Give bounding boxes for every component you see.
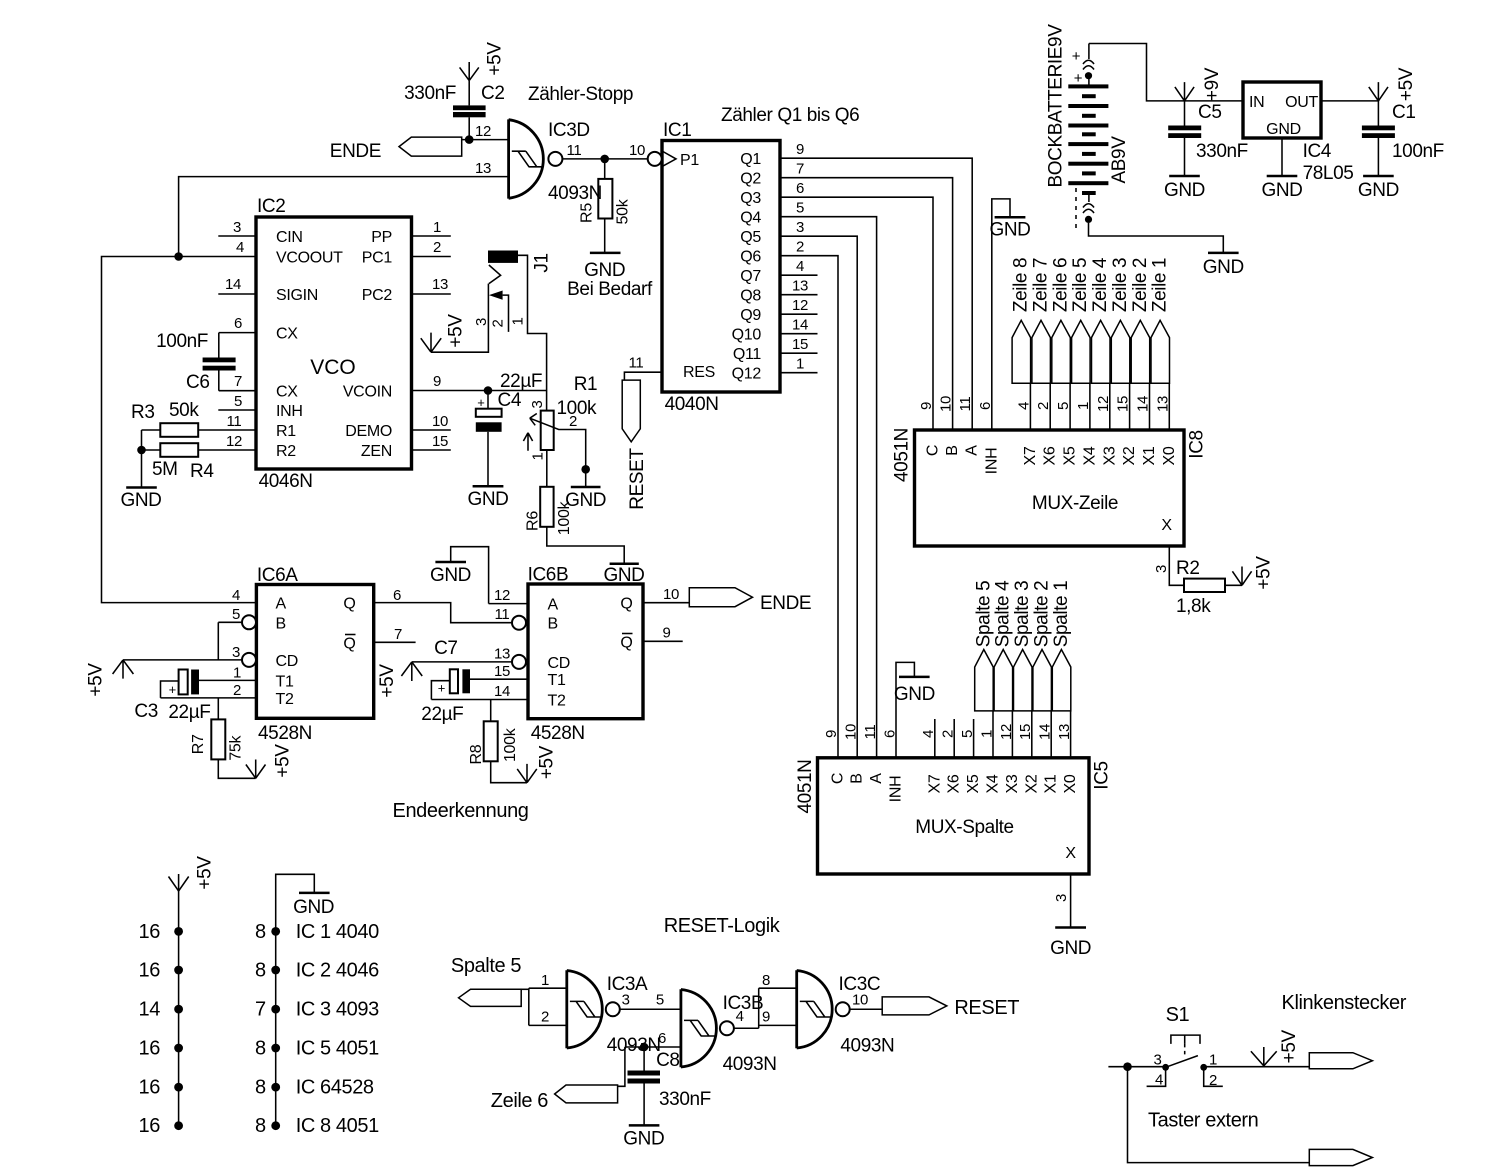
svg-text:+5V: +5V (1279, 1030, 1300, 1064)
svg-text:X1: X1 (1043, 774, 1060, 793)
svg-text:C1: C1 (1392, 102, 1416, 123)
svg-text:CD: CD (548, 655, 571, 672)
svg-text:Spalte 5: Spalte 5 (451, 955, 521, 977)
svg-text:T2: T2 (276, 691, 294, 708)
svg-text:100nF: 100nF (1392, 141, 1444, 162)
svg-text:12: 12 (998, 724, 1015, 740)
svg-text:6: 6 (658, 1030, 666, 1047)
svg-text:12: 12 (494, 587, 510, 604)
svg-text:X1: X1 (1141, 446, 1158, 465)
svg-text:X: X (1161, 517, 1172, 534)
svg-text:14: 14 (494, 683, 510, 700)
svg-text:IC 1 4040: IC 1 4040 (296, 921, 379, 943)
svg-text:10: 10 (663, 586, 679, 603)
svg-text:INH: INH (276, 403, 303, 420)
svg-text:GND: GND (467, 489, 508, 510)
svg-text:Zeile 6: Zeile 6 (491, 1090, 549, 1112)
svg-text:Klinkenstecker: Klinkenstecker (1282, 992, 1407, 1014)
svg-text:Zeile 5: Zeile 5 (1070, 258, 1091, 312)
svg-text:GND: GND (584, 260, 625, 281)
svg-text:2: 2 (433, 239, 441, 256)
svg-text:+5V: +5V (377, 664, 398, 698)
svg-text:+: + (477, 395, 485, 410)
svg-text:8: 8 (255, 921, 266, 943)
svg-text:8: 8 (255, 1115, 266, 1137)
svg-text:2: 2 (490, 319, 507, 327)
svg-text:4093N: 4093N (548, 183, 602, 204)
svg-text:Q1: Q1 (740, 151, 761, 168)
svg-text:7: 7 (796, 161, 804, 178)
svg-text:14: 14 (1037, 724, 1054, 740)
svg-text:Q: Q (620, 634, 632, 651)
svg-text:4: 4 (796, 258, 804, 275)
svg-text:Spalte 4: Spalte 4 (993, 580, 1014, 647)
svg-text:3: 3 (473, 318, 490, 326)
svg-text:10: 10 (629, 142, 645, 159)
svg-text:R6: R6 (525, 511, 542, 531)
svg-text:Spalte 3: Spalte 3 (1012, 581, 1033, 648)
svg-text:X7: X7 (1022, 446, 1039, 465)
svg-text:R4: R4 (190, 461, 214, 482)
svg-text:GND: GND (603, 565, 644, 586)
svg-text:+5V: +5V (273, 744, 294, 778)
svg-text:Zeile 4: Zeile 4 (1090, 257, 1111, 312)
svg-text:+: + (438, 681, 446, 696)
svg-text:4528N: 4528N (258, 723, 312, 744)
svg-text:X4: X4 (985, 774, 1002, 793)
svg-text:4: 4 (736, 1008, 744, 1025)
svg-text:1: 1 (541, 972, 549, 989)
svg-text:IC5: IC5 (1092, 761, 1113, 789)
svg-text:4093N: 4093N (607, 1035, 661, 1056)
svg-text:22µF: 22µF (168, 702, 210, 723)
svg-text:GND: GND (1261, 180, 1302, 201)
svg-text:+5V: +5V (1254, 556, 1275, 590)
svg-text:X0: X0 (1062, 774, 1079, 793)
svg-text:IC3D: IC3D (548, 120, 590, 141)
svg-text:GND: GND (1266, 121, 1301, 138)
svg-text:15: 15 (1017, 724, 1034, 740)
svg-text:+5V: +5V (537, 745, 558, 779)
svg-text:GND: GND (430, 565, 471, 586)
svg-text:+: + (1072, 48, 1081, 65)
svg-text:10: 10 (852, 992, 868, 1009)
svg-text:1: 1 (796, 356, 804, 373)
svg-text:IC2: IC2 (257, 196, 285, 217)
svg-text:ENDE: ENDE (760, 593, 811, 614)
svg-text:2: 2 (940, 730, 957, 738)
svg-text:78L05: 78L05 (1303, 163, 1354, 184)
svg-text:R2: R2 (276, 443, 296, 460)
svg-text:16: 16 (139, 1077, 161, 1099)
svg-text:T1: T1 (548, 672, 566, 689)
svg-text:C: C (925, 445, 942, 456)
svg-text:GND: GND (989, 220, 1030, 241)
svg-text:C: C (830, 773, 847, 784)
svg-text:2: 2 (569, 413, 577, 430)
svg-text:GND: GND (120, 490, 161, 511)
svg-text:+9V: +9V (1202, 67, 1223, 101)
svg-text:9: 9 (823, 730, 840, 738)
svg-text:2: 2 (1209, 1072, 1217, 1089)
svg-text:PC2: PC2 (362, 287, 393, 304)
svg-text:P1: P1 (680, 152, 699, 169)
svg-text:Q3: Q3 (740, 190, 761, 207)
svg-text:GND: GND (293, 897, 334, 918)
svg-text:7: 7 (394, 626, 402, 643)
svg-text:8: 8 (255, 1038, 266, 1060)
svg-text:GND: GND (623, 1129, 664, 1150)
svg-text:Zeile 3: Zeile 3 (1110, 258, 1131, 312)
svg-text:Q4: Q4 (740, 210, 761, 227)
svg-text:9: 9 (796, 141, 804, 158)
svg-text:+: + (1074, 70, 1083, 87)
svg-text:15: 15 (432, 433, 448, 450)
svg-text:X5: X5 (1062, 446, 1079, 465)
svg-text:PC1: PC1 (362, 250, 393, 267)
svg-text:2: 2 (1035, 402, 1052, 410)
svg-text:R1: R1 (574, 374, 598, 395)
svg-text:100k: 100k (556, 500, 573, 535)
svg-text:R8: R8 (468, 744, 485, 764)
svg-text:9: 9 (918, 402, 935, 410)
svg-text:VCOOUT: VCOOUT (276, 250, 343, 267)
svg-text:Q7: Q7 (740, 268, 761, 285)
svg-text:14: 14 (1135, 396, 1152, 412)
svg-text:A: A (548, 597, 559, 614)
svg-text:Q8: Q8 (740, 288, 761, 305)
svg-text:INH: INH (983, 448, 1000, 475)
svg-text:X5: X5 (965, 774, 982, 793)
svg-text:3: 3 (233, 219, 241, 236)
svg-text:IC8: IC8 (1187, 430, 1208, 458)
svg-text:GND: GND (1164, 180, 1205, 201)
svg-text:B: B (276, 615, 286, 632)
svg-text:X0: X0 (1161, 446, 1178, 465)
svg-text:Zähler Q1 bis Q6: Zähler Q1 bis Q6 (721, 105, 859, 126)
svg-text:14: 14 (225, 276, 241, 293)
svg-text:15: 15 (1115, 396, 1132, 412)
svg-text:RES: RES (683, 364, 715, 381)
svg-text:100nF: 100nF (156, 331, 208, 352)
svg-text:C8: C8 (656, 1050, 680, 1071)
svg-text:2: 2 (796, 239, 804, 256)
svg-text:1: 1 (1209, 1052, 1217, 1069)
svg-text:IC6B: IC6B (528, 565, 569, 586)
svg-text:3: 3 (529, 400, 546, 408)
svg-text:13: 13 (1154, 396, 1171, 412)
svg-text:OUT: OUT (1285, 94, 1318, 111)
svg-text:Q12: Q12 (732, 366, 762, 383)
svg-text:X: X (1065, 845, 1076, 862)
svg-text:4: 4 (1155, 1071, 1163, 1088)
svg-text:C5: C5 (1198, 102, 1222, 123)
svg-text:R7: R7 (190, 734, 207, 754)
svg-text:3: 3 (1153, 1052, 1161, 1069)
svg-text:RESET-Logik: RESET-Logik (664, 915, 781, 937)
svg-text:Zeile 2: Zeile 2 (1130, 258, 1151, 312)
svg-text:50k: 50k (169, 400, 199, 421)
svg-text:T1: T1 (276, 673, 294, 690)
svg-text:IC 2 4046: IC 2 4046 (296, 960, 379, 982)
svg-text:330nF: 330nF (659, 1089, 711, 1110)
svg-text:B: B (944, 445, 961, 455)
svg-text:3: 3 (796, 219, 804, 236)
svg-text:VCOIN: VCOIN (343, 384, 392, 401)
svg-text:4051N: 4051N (892, 428, 913, 482)
svg-text:11: 11 (957, 397, 974, 412)
svg-text:100k: 100k (502, 727, 519, 762)
svg-text:6: 6 (881, 730, 898, 738)
svg-text:Q5: Q5 (740, 229, 761, 246)
svg-text:4: 4 (236, 239, 244, 256)
svg-text:A: A (868, 773, 885, 784)
svg-text:X6: X6 (946, 774, 963, 793)
svg-text:J1: J1 (532, 253, 553, 272)
svg-text:5: 5 (1055, 402, 1072, 410)
svg-text:Zähler-Stopp: Zähler-Stopp (528, 84, 633, 105)
svg-text:Taster extern: Taster extern (1148, 1110, 1258, 1132)
svg-text:13: 13 (475, 160, 491, 177)
svg-text:5: 5 (232, 606, 240, 623)
svg-text:C2: C2 (481, 83, 505, 104)
svg-text:3: 3 (622, 992, 630, 1009)
svg-text:4046N: 4046N (259, 471, 313, 492)
svg-text:14: 14 (792, 317, 808, 334)
svg-text:4093N: 4093N (840, 1036, 894, 1057)
svg-text:8: 8 (255, 1077, 266, 1099)
svg-text:6: 6 (796, 180, 804, 197)
svg-text:PP: PP (371, 229, 392, 246)
svg-text:7: 7 (255, 999, 266, 1021)
svg-text:VCO: VCO (310, 356, 356, 379)
svg-text:4: 4 (920, 730, 937, 738)
svg-text:4528N: 4528N (531, 723, 585, 744)
svg-text:X4: X4 (1081, 446, 1098, 465)
svg-text:R5: R5 (579, 203, 596, 223)
svg-text:ZEN: ZEN (361, 443, 392, 460)
svg-text:15: 15 (792, 336, 808, 353)
svg-text:Zeile 7: Zeile 7 (1031, 258, 1052, 312)
svg-text:11: 11 (862, 725, 879, 740)
svg-text:10: 10 (938, 396, 955, 412)
svg-text:MUX-Zeile: MUX-Zeile (1032, 493, 1118, 514)
svg-text:Q11: Q11 (733, 346, 762, 363)
svg-text:SIGIN: SIGIN (276, 287, 318, 304)
svg-text:12: 12 (792, 297, 808, 314)
svg-text:IC 3 4093: IC 3 4093 (296, 999, 379, 1021)
svg-text:22µF: 22µF (500, 371, 542, 392)
svg-text:R2: R2 (1176, 558, 1200, 579)
svg-text:X3: X3 (1004, 774, 1021, 793)
svg-text:X3: X3 (1101, 446, 1118, 465)
svg-text:IC4: IC4 (1303, 141, 1332, 162)
svg-text:X2: X2 (1023, 774, 1040, 793)
svg-text:B: B (548, 616, 558, 633)
svg-text:12: 12 (1095, 396, 1112, 412)
svg-text:Q6: Q6 (740, 249, 761, 266)
svg-text:R1: R1 (276, 423, 296, 440)
svg-text:+5V: +5V (1396, 67, 1417, 101)
svg-text:11: 11 (567, 142, 582, 159)
svg-text:1: 1 (433, 219, 441, 236)
svg-text:Q10: Q10 (732, 327, 762, 344)
svg-text:CX: CX (276, 384, 298, 401)
svg-text:3: 3 (1153, 565, 1170, 573)
svg-text:16: 16 (139, 921, 161, 943)
svg-text:IC 5 4051: IC 5 4051 (296, 1038, 379, 1060)
svg-text:9: 9 (433, 373, 441, 390)
svg-text:GND: GND (1203, 257, 1244, 278)
svg-text:+5V: +5V (485, 42, 506, 76)
svg-text:MUX-Spalte: MUX-Spalte (915, 817, 1013, 838)
svg-text:C7: C7 (434, 638, 458, 659)
svg-text:7: 7 (234, 373, 242, 390)
svg-text:GND: GND (1050, 938, 1091, 959)
svg-text:11: 11 (629, 355, 644, 372)
svg-text:10: 10 (843, 724, 860, 740)
svg-text:INH: INH (888, 776, 905, 803)
svg-text:+5V: +5V (86, 663, 107, 697)
svg-text:4093N: 4093N (723, 1054, 777, 1075)
svg-text:DEMO: DEMO (345, 423, 392, 440)
svg-text:X2: X2 (1121, 446, 1138, 465)
svg-text:S1: S1 (1166, 1004, 1190, 1026)
svg-text:C6: C6 (186, 372, 210, 393)
svg-text:8: 8 (762, 972, 770, 989)
svg-text:16: 16 (139, 1115, 161, 1137)
svg-text:Spalte 5: Spalte 5 (973, 581, 994, 648)
svg-text:16: 16 (139, 1038, 161, 1060)
svg-text:1: 1 (233, 665, 241, 682)
svg-text:T2: T2 (548, 693, 566, 710)
svg-text:2: 2 (233, 682, 241, 699)
svg-text:3: 3 (232, 644, 240, 661)
svg-text:Q2: Q2 (740, 171, 761, 188)
svg-text:330nF: 330nF (404, 83, 456, 104)
svg-text:14: 14 (139, 999, 161, 1021)
svg-text:ENDE: ENDE (330, 141, 381, 162)
svg-text:GND: GND (1358, 180, 1399, 201)
svg-text:11: 11 (227, 413, 242, 430)
svg-text:1: 1 (978, 730, 995, 738)
svg-text:IC 64528: IC 64528 (296, 1077, 374, 1099)
svg-text:B: B (849, 773, 866, 783)
svg-text:A: A (964, 445, 981, 456)
svg-text:1: 1 (510, 317, 527, 325)
svg-text:1,8k: 1,8k (1176, 596, 1211, 617)
svg-text:Zeile 1: Zeile 1 (1150, 258, 1171, 312)
svg-text:4051N: 4051N (795, 760, 816, 814)
svg-text:Q: Q (343, 635, 355, 652)
svg-text:CIN: CIN (276, 229, 303, 246)
svg-text:6: 6 (234, 315, 242, 332)
svg-text:R3: R3 (131, 402, 155, 423)
svg-text:6: 6 (977, 402, 994, 410)
svg-text:IC 8 4051: IC 8 4051 (296, 1115, 379, 1137)
svg-text:9: 9 (762, 1009, 770, 1026)
svg-text:GND: GND (894, 684, 935, 705)
svg-text:4: 4 (1015, 402, 1032, 410)
svg-text:10: 10 (432, 413, 448, 430)
svg-text:13: 13 (792, 278, 808, 295)
svg-text:Zeile 8: Zeile 8 (1011, 258, 1032, 312)
svg-text:IC6A: IC6A (257, 565, 298, 586)
svg-text:50k: 50k (615, 198, 632, 224)
svg-text:6: 6 (393, 587, 401, 604)
svg-text:Zeile 6: Zeile 6 (1050, 258, 1071, 312)
svg-text:Spalte 1: Spalte 1 (1051, 581, 1072, 648)
svg-text:Q: Q (620, 596, 632, 613)
svg-text:1: 1 (1075, 402, 1092, 410)
svg-text:IN: IN (1249, 94, 1264, 111)
svg-text:C3: C3 (134, 701, 158, 722)
svg-text:5: 5 (656, 992, 664, 1009)
svg-text:9: 9 (662, 625, 670, 642)
svg-text:5: 5 (234, 393, 242, 410)
svg-text:330nF: 330nF (1196, 141, 1248, 162)
svg-text:Q: Q (343, 596, 355, 613)
svg-text:BOCKBATTERIE9V: BOCKBATTERIE9V (1046, 24, 1067, 188)
svg-text:+5V: +5V (195, 856, 216, 890)
svg-text:X6: X6 (1042, 446, 1059, 465)
svg-text:15: 15 (494, 663, 510, 680)
svg-text:22µF: 22µF (421, 704, 463, 725)
svg-text:+: + (169, 682, 177, 697)
svg-text:3: 3 (1053, 894, 1070, 902)
svg-text:Bei Bedarf: Bei Bedarf (567, 279, 653, 300)
svg-text:Q9: Q9 (740, 307, 761, 324)
svg-text:X7: X7 (926, 774, 943, 793)
svg-text:2: 2 (541, 1009, 549, 1026)
svg-text:+5V: +5V (446, 314, 467, 348)
svg-text:RESET: RESET (954, 997, 1019, 1019)
svg-text:A: A (276, 596, 287, 613)
svg-text:12: 12 (475, 123, 491, 140)
svg-text:Endeerkennung: Endeerkennung (393, 800, 529, 822)
svg-text:1: 1 (529, 452, 546, 460)
svg-text:C4: C4 (498, 390, 522, 411)
svg-text:13: 13 (1056, 724, 1073, 740)
svg-text:13: 13 (494, 646, 510, 663)
svg-text:RESET: RESET (627, 448, 648, 510)
svg-text:8: 8 (255, 960, 266, 982)
svg-text:CD: CD (276, 653, 299, 670)
svg-text:5M: 5M (152, 459, 178, 480)
svg-text:4: 4 (232, 587, 240, 604)
svg-text:4040N: 4040N (665, 394, 719, 415)
svg-text:5: 5 (796, 200, 804, 217)
svg-text:13: 13 (432, 276, 448, 293)
svg-text:IC1: IC1 (663, 120, 691, 141)
svg-text:Spalte 2: Spalte 2 (1032, 581, 1053, 648)
svg-text:CX: CX (276, 326, 298, 343)
svg-text:AB9V: AB9V (1109, 136, 1130, 184)
svg-text:12: 12 (226, 433, 242, 450)
svg-text:16: 16 (139, 960, 161, 982)
svg-text:5: 5 (959, 730, 976, 738)
svg-text:75k: 75k (228, 735, 245, 761)
svg-text:11: 11 (495, 606, 510, 623)
